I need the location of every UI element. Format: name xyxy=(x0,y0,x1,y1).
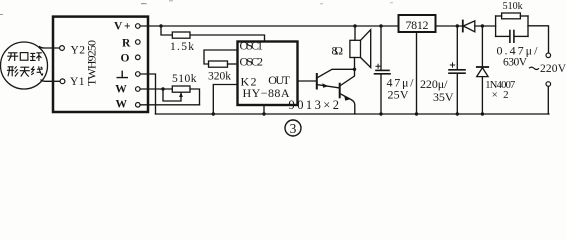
svg-text:510k: 510k xyxy=(172,73,197,85)
wire HY-88A bottom to rail xyxy=(263,105,265,114)
figure number 3 circled xyxy=(285,120,301,136)
svg-text:3: 3 xyxy=(290,121,297,136)
C2 plus sign xyxy=(450,63,454,67)
label kou (mouth) xyxy=(20,53,28,61)
diode D2 cathode bar xyxy=(477,66,488,68)
IC U1 TWH9250 box xyxy=(53,17,148,112)
svg-text:OUT: OUT xyxy=(268,73,290,87)
wire to AC terminal xyxy=(528,26,549,53)
node C2 top junction xyxy=(456,24,459,27)
wire antenna to Y2 xyxy=(40,47,60,48)
wire bottom rail xyxy=(156,113,549,115)
wire speaker top to rail xyxy=(354,26,356,40)
label kai (open) xyxy=(7,53,18,61)
svg-text:OSC2: OSC2 xyxy=(240,55,264,69)
node top-rail junction xyxy=(159,24,162,27)
Q1 collector xyxy=(317,69,355,78)
IC U2 HY-88A box xyxy=(238,42,298,106)
wire W2 to pot right xyxy=(140,104,199,106)
svg-text:R: R xyxy=(122,37,131,49)
wire ground pin to bottom rail xyxy=(140,74,155,114)
antenna loop 开口环形天线 xyxy=(1,42,48,89)
Q2 collector xyxy=(340,69,355,86)
capacitor C1 47u25V wire top xyxy=(380,26,382,70)
node C2 rail junction xyxy=(456,112,459,115)
pin O xyxy=(136,55,141,60)
svg-text:1.5k: 1.5k xyxy=(170,41,194,53)
node C1 top junction xyxy=(379,24,382,27)
diode D2 triangle xyxy=(477,68,488,77)
transistor Q2 9013 base bar xyxy=(339,84,341,98)
svg-text:TWH9250: TWH9250 xyxy=(85,40,99,86)
resistor R3 510k branch xyxy=(496,15,502,17)
pin W1 xyxy=(136,87,141,92)
diode D2 1N4007 wire xyxy=(481,26,483,67)
capacitor C1 plates xyxy=(376,69,389,71)
wire wiper loop xyxy=(163,89,181,101)
C1 plus sign xyxy=(376,64,380,68)
node C1 rail junction xyxy=(379,112,382,115)
svg-text:1N4007: 1N4007 xyxy=(485,80,515,91)
svg-text:O: O xyxy=(121,53,130,65)
Q2 emitter arrow xyxy=(344,96,350,101)
pin W2 xyxy=(136,103,141,108)
wire 7812 out to D1 xyxy=(436,25,463,27)
label xing (shape) xyxy=(7,66,18,76)
svg-text:8Ω: 8Ω xyxy=(332,44,344,58)
node K2 rail junction xyxy=(212,112,215,115)
node speaker rail junction xyxy=(353,24,356,27)
wire C2 bottom to rail xyxy=(456,74,458,115)
node wiper tap xyxy=(161,87,164,90)
svg-text:HY−88A: HY−88A xyxy=(243,86,290,100)
wire 320k to OSC2 xyxy=(228,63,238,65)
Q2 emitter xyxy=(340,94,355,115)
AC terminal bottom xyxy=(546,82,551,87)
pin R xyxy=(136,40,141,45)
label ground symbol xyxy=(117,71,129,78)
svg-text:25V: 25V xyxy=(388,87,409,101)
wire OUT to Q1 base xyxy=(298,80,317,82)
wire V+ to top rail xyxy=(140,25,398,27)
svg-text:7812: 7812 xyxy=(406,18,429,32)
wire K2 to ground rail xyxy=(213,85,237,115)
wire D1 to RC node xyxy=(475,25,496,27)
wire C1 bottom to rail xyxy=(380,75,382,115)
wire pot right end down xyxy=(190,89,200,105)
transistor Q1 9013 base bar xyxy=(316,74,318,89)
RC block right node xyxy=(527,16,529,36)
svg-text:630V: 630V xyxy=(503,56,528,68)
wire 7812 ground xyxy=(416,32,418,114)
capacitor C2 220u35V wire xyxy=(456,26,458,69)
node D2 top junction xyxy=(481,24,484,27)
terminal Y2 xyxy=(60,46,65,51)
svg-text:510k: 510k xyxy=(503,1,523,12)
svg-text:Y2: Y2 xyxy=(71,45,86,57)
svg-text:OSC1: OSC1 xyxy=(240,39,264,53)
Q1 emitter arrow xyxy=(322,83,328,87)
diode D1 1N4007 xyxy=(462,21,464,32)
pin ground xyxy=(136,72,141,77)
label ~220V xyxy=(529,67,539,69)
terminal Y1 xyxy=(60,79,65,84)
wire 1.5k to OSC box top xyxy=(190,35,265,42)
wire drop to 1.5k xyxy=(161,26,172,35)
wire W1 to pot xyxy=(140,88,172,90)
wire OSC1 loop xyxy=(204,50,238,64)
wire speaker bottom to collectors xyxy=(354,58,356,70)
node collector junction xyxy=(353,68,356,71)
RC dropper block left node xyxy=(495,16,497,36)
resistor R1 1.5k xyxy=(172,32,190,38)
wiper arrow xyxy=(179,92,183,97)
AC terminal top xyxy=(546,53,551,58)
Q1 emitter xyxy=(317,85,340,89)
label xian (wire) xyxy=(31,66,43,75)
svg-text:320k: 320k xyxy=(208,71,231,83)
label huan (ring) xyxy=(30,53,42,61)
node 7812 gnd junction xyxy=(415,112,418,115)
regulator U3 7812 box xyxy=(399,15,436,32)
node D2 rail junction xyxy=(481,112,484,115)
scan speckles xyxy=(0,0,393,15)
pin V+ xyxy=(136,24,141,29)
capacitor C3 0.47u630V branch xyxy=(496,35,510,37)
svg-text:V+: V+ xyxy=(114,21,131,33)
svg-text:Y1: Y1 xyxy=(70,76,85,88)
svg-text:W: W xyxy=(115,84,127,96)
svg-text:220μ/: 220μ/ xyxy=(420,77,448,91)
node HY ground junction xyxy=(262,112,265,115)
svg-text:W: W xyxy=(116,99,128,111)
label tian (sky) xyxy=(20,67,30,76)
capacitor C2 plates xyxy=(449,69,465,71)
svg-text:220V: 220V xyxy=(540,63,567,75)
wire AC bottom to rail xyxy=(547,86,550,114)
wire antenna to Y1 xyxy=(41,80,60,81)
wire D2 to rail xyxy=(481,77,483,114)
speaker LS 8ohm xyxy=(350,40,361,57)
svg-text:35V: 35V xyxy=(433,90,454,104)
potentiometer RP 510k xyxy=(172,86,190,92)
resistor R2 320k xyxy=(209,61,228,67)
